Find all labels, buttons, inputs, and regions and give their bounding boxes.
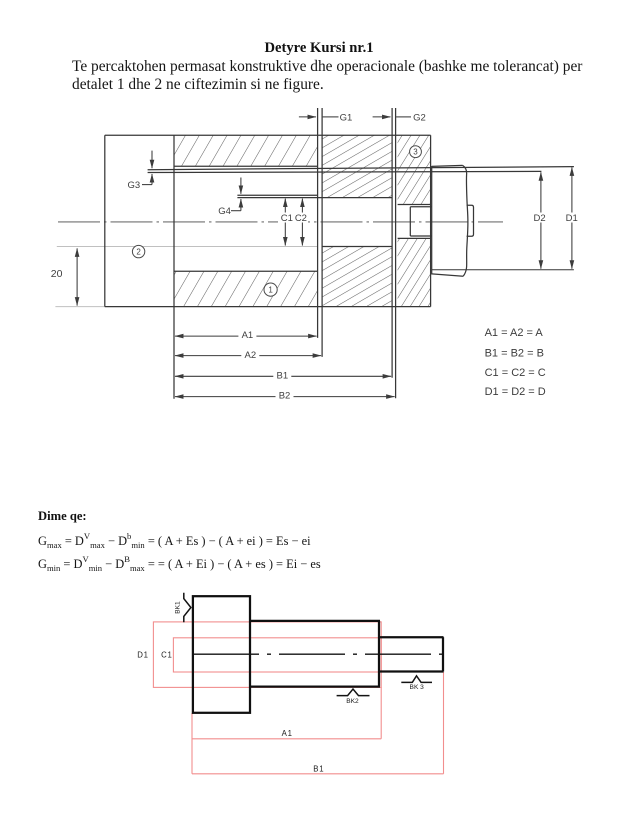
svg-text:BK 3: BK 3: [410, 684, 425, 691]
svg-text:C2: C2: [295, 213, 307, 224]
svg-text:1: 1: [268, 286, 273, 295]
svg-text:D2: D2: [534, 213, 546, 224]
svg-text:D1: D1: [566, 213, 578, 224]
svg-text:G2: G2: [413, 112, 426, 123]
svg-text:C1: C1: [281, 213, 293, 224]
svg-text:B1: B1: [276, 370, 288, 381]
svg-text:C1: C1: [161, 651, 173, 660]
svg-text:BK2: BK2: [346, 698, 359, 705]
svg-text:A1: A1: [282, 729, 293, 738]
svg-text:B1: B1: [313, 765, 324, 774]
svg-text:C1 = C2 = C: C1 = C2 = C: [485, 367, 546, 379]
svg-text:A1 = A2 = A: A1 = A2 = A: [485, 327, 544, 339]
svg-text:BK1: BK1: [175, 601, 182, 614]
svg-text:B2: B2: [279, 391, 291, 402]
svg-text:3: 3: [413, 148, 418, 157]
svg-text:G4: G4: [218, 206, 231, 217]
svg-text:D1: D1: [137, 651, 149, 660]
svg-text:2: 2: [136, 248, 141, 257]
svg-text:20: 20: [51, 268, 63, 280]
svg-text:D1 = D2 = D: D1 = D2 = D: [485, 386, 546, 398]
svg-text:G1: G1: [340, 112, 353, 123]
svg-text:B1 = B2 = B: B1 = B2 = B: [485, 348, 544, 360]
svg-text:A2: A2: [244, 350, 256, 361]
svg-text:G3: G3: [128, 180, 141, 191]
svg-text:A1: A1: [242, 330, 254, 341]
